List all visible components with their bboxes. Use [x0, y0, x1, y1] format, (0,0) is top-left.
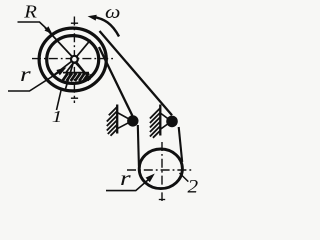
- wheel 1 horizontal centerline: [32, 58, 113, 60]
- label 2: [188, 176, 199, 197]
- centerline tick bottom: [71, 97, 78, 99]
- wheel 2 vertical centerline: [161, 142, 163, 201]
- svg-text:R: R: [23, 3, 37, 22]
- leader 1: [57, 91, 62, 111]
- centerline tick top: [71, 22, 78, 24]
- left bracket triangle: [117, 113, 132, 129]
- spoke up-right: [77, 40, 91, 57]
- hatched ground block: [62, 73, 91, 81]
- support triangle (pivot): [63, 62, 89, 73]
- omega rotation arrow: [93, 17, 119, 37]
- label 1: [52, 108, 63, 127]
- rope 2 (from outer radius to right pulley): [100, 31, 173, 115]
- left wall hatching: [107, 107, 117, 136]
- wheel 2 horizontal centerline: [127, 169, 194, 171]
- wheel 1 outer rim (radius R): [39, 28, 106, 91]
- left wall line: [116, 105, 118, 134]
- leader r bottom: [106, 180, 149, 191]
- label r (wheel 2): [120, 167, 131, 190]
- arrowhead r: [56, 67, 66, 75]
- svg-text:2: 2: [188, 176, 199, 197]
- spoke down-right: [76, 62, 90, 80]
- label r (wheel 1): [20, 63, 31, 86]
- right bracket triangle: [160, 113, 171, 129]
- svg-text:r: r: [120, 167, 131, 190]
- label omega: [105, 2, 120, 22]
- left pulley: [127, 115, 138, 126]
- svg-text:r: r: [20, 63, 31, 86]
- wheel 2 rim: [139, 149, 182, 189]
- svg-text:ω: ω: [105, 2, 120, 22]
- svg-text:1: 1: [52, 108, 63, 127]
- leader 2: [180, 173, 189, 182]
- leader r: [8, 72, 60, 91]
- rope 1 (from inner radius to left pulley): [99, 47, 132, 116]
- right pulley: [166, 116, 178, 128]
- rope 2 vertical segment: [179, 127, 183, 162]
- right wall line: [159, 105, 161, 136]
- arrowhead omega: [88, 15, 97, 21]
- right wall hatching: [150, 108, 160, 138]
- spoke up-left: [45, 28, 73, 58]
- label R: [23, 3, 37, 22]
- wheel 1 vertical centerline: [73, 17, 75, 104]
- arrowhead r bottom: [146, 174, 155, 183]
- wheel 2 centerline tick bottom: [159, 199, 165, 201]
- rope 1 vertical segment: [138, 125, 139, 166]
- spoke down: [65, 62, 73, 90]
- leader R: [18, 22, 49, 31]
- spoke down-left: [55, 61, 72, 74]
- hub: [71, 56, 78, 63]
- wheel 1 inner rim (radius r): [47, 36, 99, 84]
- arrowhead R: [45, 26, 53, 34]
